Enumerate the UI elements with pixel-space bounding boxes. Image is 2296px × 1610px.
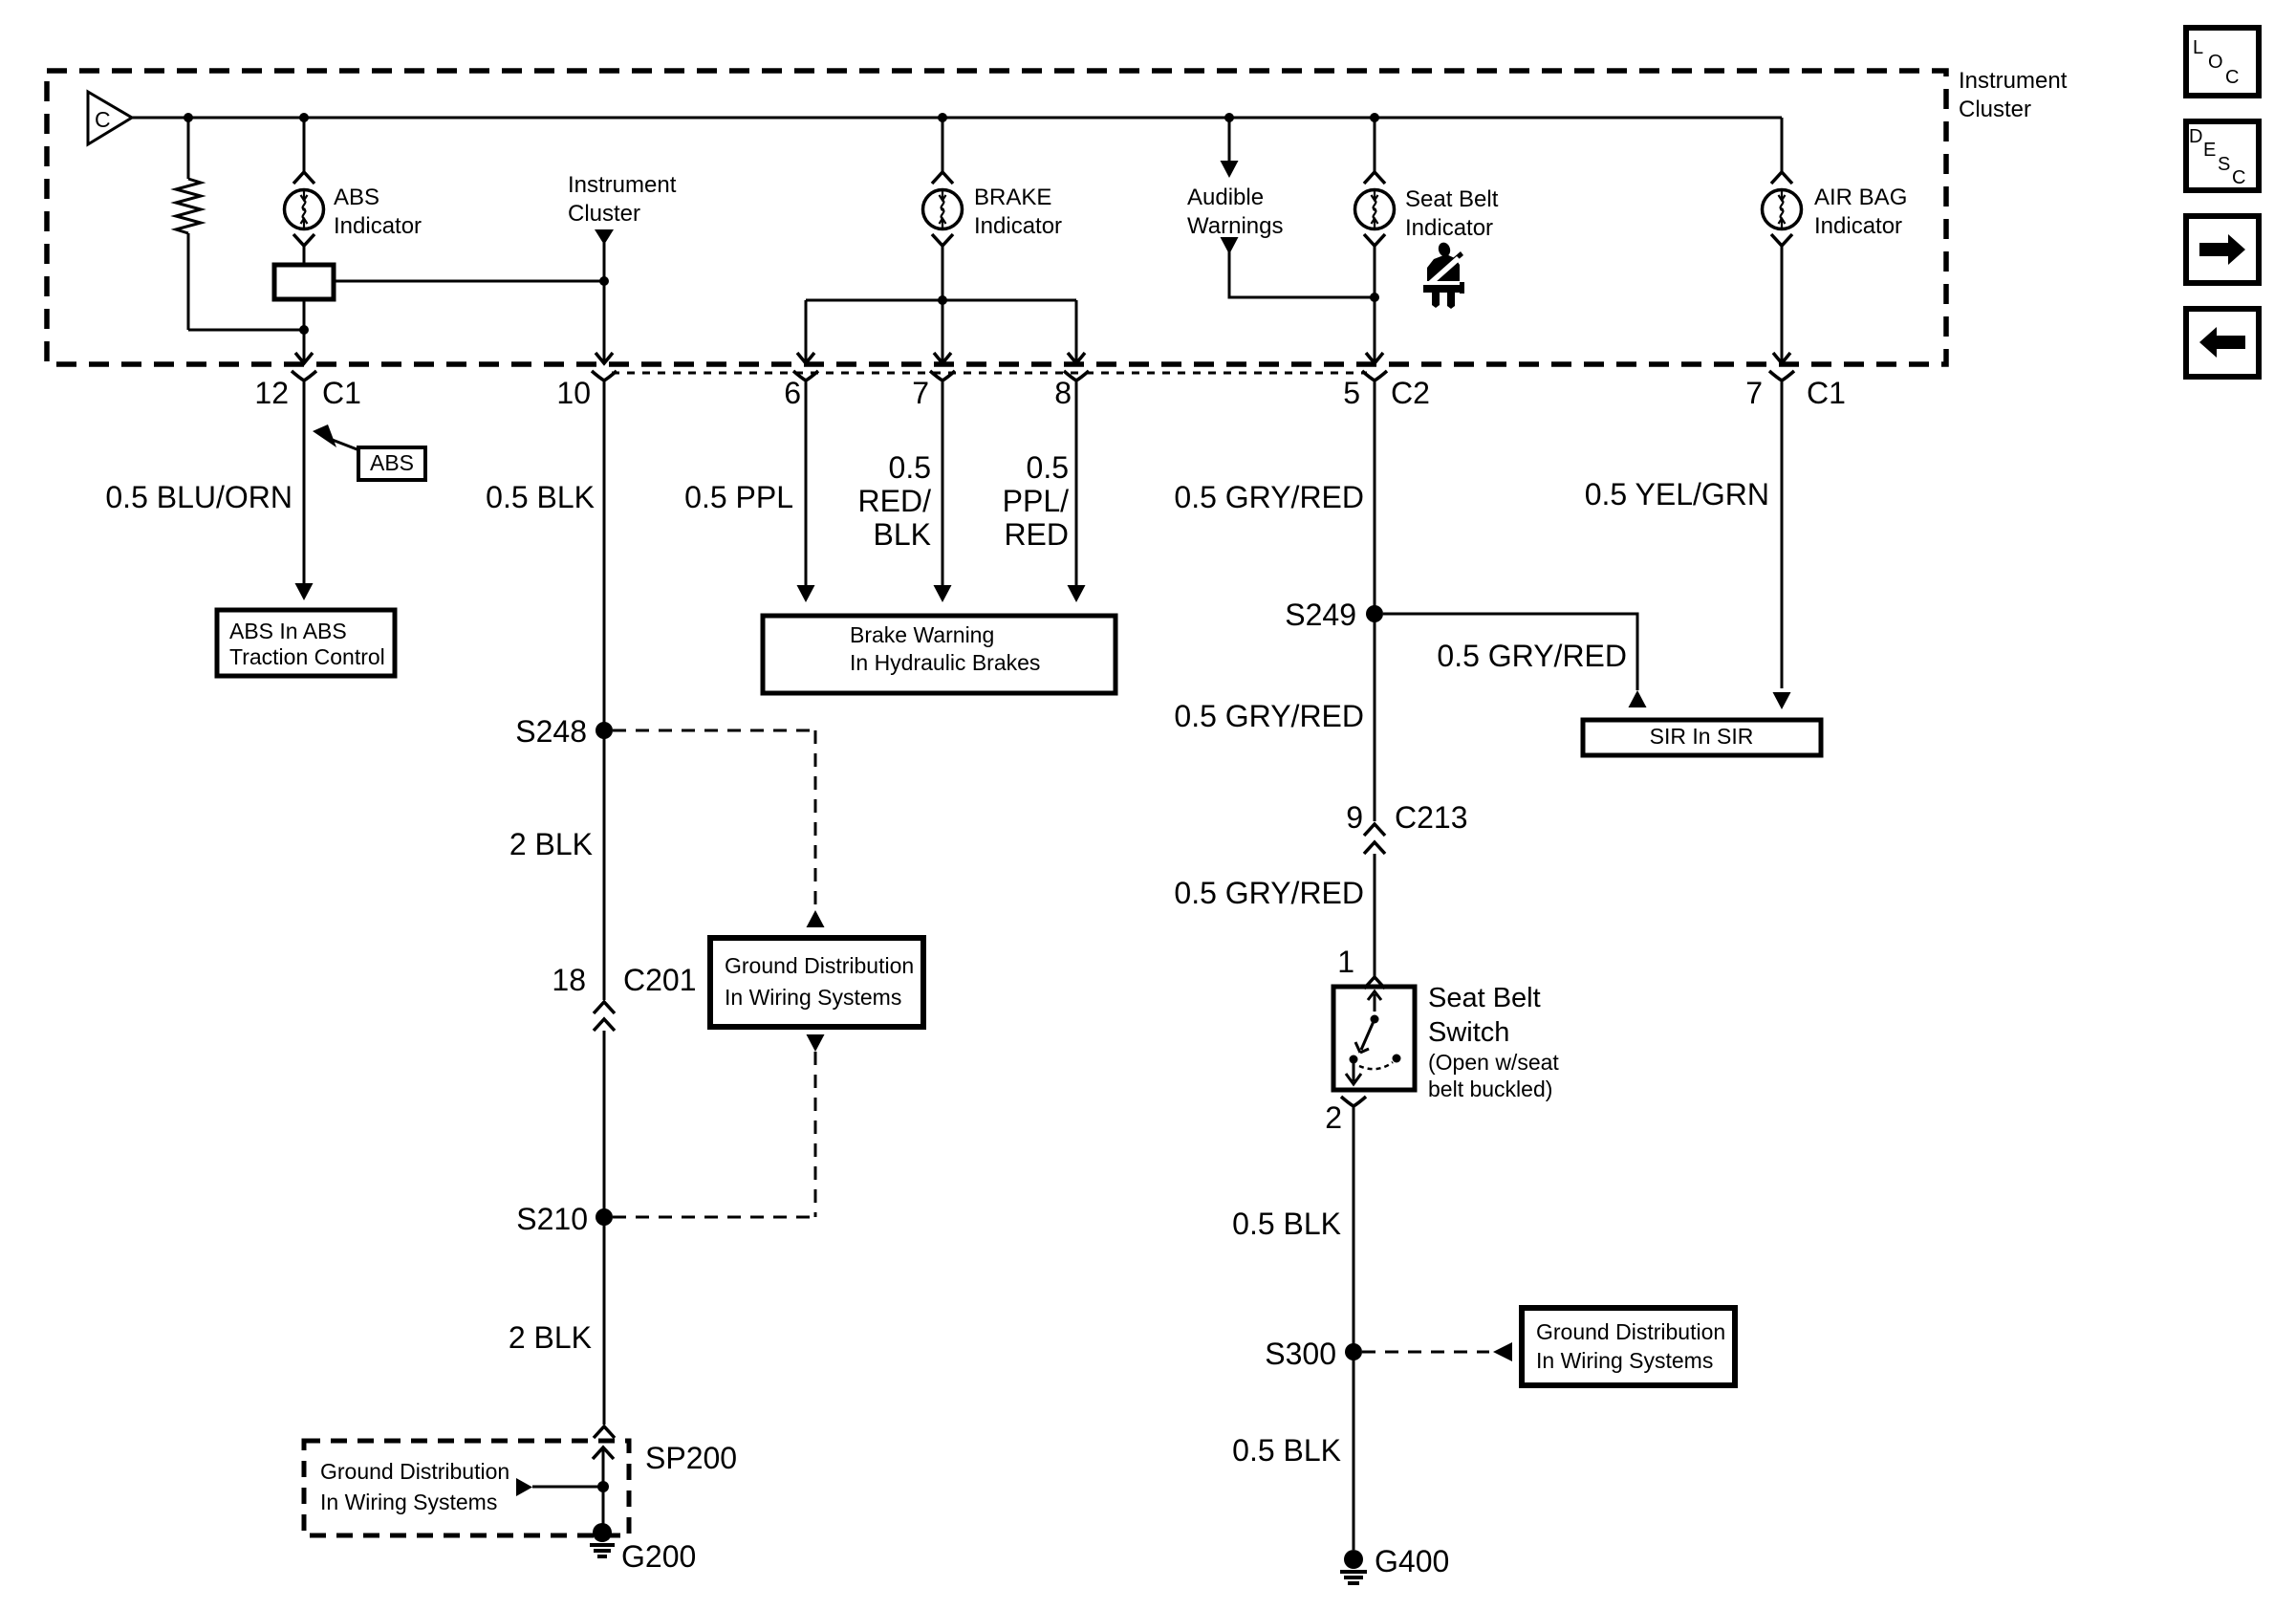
svg-text:C: C bbox=[2232, 167, 2245, 188]
svg-text:Instrument: Instrument bbox=[568, 172, 677, 198]
svg-text:Traction Control: Traction Control bbox=[229, 644, 385, 669]
wire: branch 7 down bbox=[934, 300, 951, 363]
wire: branch 6 down bbox=[797, 300, 814, 363]
svg-text:PPL/: PPL/ bbox=[1003, 484, 1069, 518]
connector pin 5 C2 bbox=[1343, 371, 1430, 410]
wire: resistor bottom to ABS column bbox=[188, 329, 304, 332]
svg-text:0.5 GRY/RED: 0.5 GRY/RED bbox=[1174, 699, 1364, 733]
svg-text:Seat Belt: Seat Belt bbox=[1428, 983, 1541, 1013]
wire: bus corner down to air bag indicator bbox=[1781, 118, 1784, 171]
wire: seat belt indicator down to connector 5 bbox=[1366, 246, 1383, 363]
legend box DESC bbox=[2186, 121, 2259, 190]
instrument cluster title (top right) bbox=[1959, 68, 2068, 122]
node: bus junction at resistor bbox=[184, 113, 193, 122]
dashed box ground distribution (bottom left) bbox=[304, 1441, 629, 1535]
connector pin 10 bbox=[556, 371, 617, 410]
seat belt icon bbox=[1423, 241, 1464, 309]
svg-text:ABS In ABS: ABS In ABS bbox=[229, 619, 347, 643]
svg-text:10: 10 bbox=[556, 376, 591, 410]
legend box LOC bbox=[2186, 28, 2259, 96]
svg-text:6: 6 bbox=[784, 376, 801, 410]
svg-text:0.5 GRY/RED: 0.5 GRY/RED bbox=[1174, 876, 1364, 910]
svg-text:E: E bbox=[2203, 140, 2216, 161]
connector 18 C201 bbox=[552, 730, 696, 1031]
splice pack SP200 label bbox=[645, 1441, 737, 1475]
instrument cluster dashed box bbox=[47, 71, 1946, 364]
svg-text:18: 18 bbox=[552, 963, 586, 997]
wire 0.5 YEL/GRN to SIR bbox=[1585, 381, 1791, 709]
svg-text:Seat Belt: Seat Belt bbox=[1405, 186, 1499, 212]
connector pin 6 bbox=[784, 371, 818, 410]
svg-text:Indicator: Indicator bbox=[334, 213, 422, 239]
svg-text:C2: C2 bbox=[1391, 376, 1430, 410]
wire 0.5 BLU/ORN to ABS module bbox=[105, 381, 313, 600]
legend box left arrow bbox=[2186, 309, 2259, 377]
svg-text:O: O bbox=[2208, 52, 2223, 73]
wire: brake indicator to branch tee bbox=[806, 246, 1076, 305]
svg-text:belt buckled): belt buckled) bbox=[1428, 1077, 1552, 1101]
box SIR In SIR bbox=[1583, 720, 1821, 755]
lamp BRAKE Indicator bbox=[923, 118, 1063, 246]
svg-text:(Open w/seat: (Open w/seat bbox=[1428, 1050, 1559, 1075]
svg-text:Audible: Audible bbox=[1187, 185, 1264, 210]
wire: ABS column down to connector, node at resistor join bbox=[295, 299, 313, 363]
svg-text:0.5: 0.5 bbox=[889, 450, 931, 485]
splice S248 bbox=[515, 714, 613, 749]
svg-text:S: S bbox=[2218, 154, 2230, 175]
svg-text:0.5 GRY/RED: 0.5 GRY/RED bbox=[1437, 639, 1627, 673]
reference arrow into SP200 wire bbox=[516, 1478, 609, 1496]
svg-text:L: L bbox=[2193, 37, 2203, 58]
connector pin 1 bbox=[1337, 945, 1385, 989]
svg-text:Indicator: Indicator bbox=[1814, 213, 1902, 239]
svg-text:In Hydraulic Brakes: In Hydraulic Brakes bbox=[850, 650, 1040, 675]
connector pin 2 bbox=[1325, 1097, 1366, 1135]
svg-text:9: 9 bbox=[1346, 800, 1363, 835]
off-page connector C triangle bbox=[88, 92, 132, 144]
svg-text:0.5 GRY/RED: 0.5 GRY/RED bbox=[1174, 480, 1364, 514]
node: bus junction at audible warnings bbox=[1224, 113, 1234, 122]
svg-text:S210: S210 bbox=[516, 1202, 588, 1236]
svg-text:2 BLK: 2 BLK bbox=[509, 1320, 592, 1355]
lamp AIR BAG Indicator bbox=[1763, 172, 1908, 246]
svg-text:12: 12 bbox=[254, 376, 289, 410]
svg-text:Ground Distribution: Ground Distribution bbox=[1536, 1319, 1725, 1344]
seat belt switch box bbox=[1333, 987, 1415, 1090]
ground G200 bbox=[590, 1523, 696, 1574]
wire 0.5 GRY/RED to seat belt switch bbox=[1174, 854, 1375, 977]
wire: driver box to instrument cluster feed bbox=[334, 280, 604, 283]
wire 2 BLK lower to S210 bbox=[509, 1031, 604, 1355]
dashed reference: S300 to ground distribution bbox=[1362, 1342, 1512, 1361]
wire 0.5 PPL/RED bbox=[1003, 381, 1086, 602]
svg-text:Ground Distribution: Ground Distribution bbox=[320, 1459, 509, 1484]
svg-text:C201: C201 bbox=[623, 963, 697, 997]
svg-text:1: 1 bbox=[1337, 945, 1354, 979]
connector pin 7 C1 (air bag) bbox=[1745, 371, 1846, 410]
dashed reference: S248 to ground distribution bbox=[613, 730, 825, 927]
svg-text:SIR In SIR: SIR In SIR bbox=[1650, 724, 1754, 749]
ABS circuit callout box bbox=[313, 424, 425, 480]
svg-text:Indicator: Indicator bbox=[974, 213, 1062, 239]
box ABS In ABS Traction Control bbox=[217, 610, 395, 676]
node: bus junction at ABS indicator bbox=[299, 113, 309, 122]
svg-text:0.5 BLK: 0.5 BLK bbox=[486, 480, 595, 514]
wire: S249 branch to SIR bbox=[1383, 614, 1647, 707]
seat belt switch label bbox=[1428, 983, 1559, 1101]
svg-text:ABS: ABS bbox=[370, 450, 414, 475]
svg-text:0.5 PPL: 0.5 PPL bbox=[684, 480, 793, 514]
connector row thin dashed line (C2) bbox=[612, 372, 1367, 375]
svg-text:G400: G400 bbox=[1375, 1544, 1449, 1578]
svg-text:2 BLK: 2 BLK bbox=[509, 827, 593, 861]
svg-text:C1: C1 bbox=[1807, 376, 1846, 410]
svg-text:Warnings: Warnings bbox=[1187, 213, 1283, 239]
svg-text:0.5: 0.5 bbox=[1027, 450, 1069, 485]
svg-text:Indicator: Indicator bbox=[1405, 215, 1493, 241]
svg-text:Cluster: Cluster bbox=[568, 201, 640, 227]
wire 2 BLK upper bbox=[509, 827, 593, 861]
node: audible joins seat belt column bbox=[1370, 293, 1379, 302]
svg-text:8: 8 bbox=[1054, 376, 1072, 410]
svg-text:Switch: Switch bbox=[1428, 1017, 1509, 1048]
wire 0.5 BLK to G400 bbox=[1232, 1352, 1354, 1550]
svg-text:0.5 BLK: 0.5 BLK bbox=[1232, 1207, 1341, 1241]
svg-text:2: 2 bbox=[1325, 1100, 1342, 1135]
wire 0.5 GRY/RED to C213 bbox=[1174, 614, 1375, 821]
svg-text:0.5 BLU/ORN: 0.5 BLU/ORN bbox=[105, 480, 292, 514]
svg-text:AIR BAG: AIR BAG bbox=[1814, 185, 1907, 210]
svg-text:C1: C1 bbox=[322, 376, 361, 410]
wire: branch 8 down bbox=[1068, 300, 1085, 363]
wire 0.5 RED/BLK bbox=[858, 381, 952, 602]
svg-text:BLK: BLK bbox=[874, 517, 931, 552]
svg-text:D: D bbox=[2189, 126, 2202, 147]
lamp ABS Indicator bbox=[285, 118, 422, 246]
svg-text:In Wiring Systems: In Wiring Systems bbox=[320, 1490, 497, 1514]
svg-text:5: 5 bbox=[1343, 376, 1360, 410]
connector pin 8 bbox=[1054, 371, 1089, 410]
svg-text:Instrument: Instrument bbox=[1959, 68, 2068, 94]
svg-text:C: C bbox=[95, 107, 111, 132]
ABS indicator driver box (cluster internal) bbox=[274, 246, 334, 299]
svg-text:RED: RED bbox=[1004, 517, 1069, 552]
svg-text:C213: C213 bbox=[1395, 800, 1468, 835]
svg-text:G200: G200 bbox=[621, 1539, 696, 1574]
wire 0.5 GRY/RED to S249 bbox=[1174, 381, 1375, 614]
wire: air bag indicator down to connector 7 bbox=[1773, 246, 1790, 363]
resistor (cluster internal) bbox=[176, 118, 201, 330]
svg-text:ABS: ABS bbox=[334, 185, 379, 210]
splice S249 bbox=[1285, 598, 1383, 632]
legend box right arrow bbox=[2186, 216, 2259, 283]
dashed reference: ground distribution to S210 bbox=[613, 1034, 825, 1217]
svg-text:In Wiring Systems: In Wiring Systems bbox=[1536, 1348, 1713, 1373]
svg-text:Brake Warning: Brake Warning bbox=[850, 622, 994, 647]
svg-text:0.5 BLK: 0.5 BLK bbox=[1232, 1433, 1341, 1468]
splice S210 bbox=[516, 1202, 613, 1236]
wire: SP200 to G200 bbox=[602, 1447, 605, 1528]
box Ground Distribution In Wiring Systems (right) bbox=[1522, 1308, 1735, 1385]
svg-text:BRAKE: BRAKE bbox=[974, 185, 1051, 210]
connector 9 C213 bbox=[1346, 800, 1467, 854]
svg-text:S248: S248 bbox=[515, 714, 587, 749]
connector pin 12 C1 bbox=[254, 371, 361, 410]
node: bus junction at BRAKE indicator bbox=[938, 113, 947, 122]
wire 0.5 BLK to S300 bbox=[1232, 1106, 1354, 1352]
lamp Seat Belt Indicator bbox=[1355, 118, 1499, 246]
svg-text:Cluster: Cluster bbox=[1959, 97, 2031, 122]
connector pin 7 bbox=[912, 371, 955, 410]
seat belt switch contacts bbox=[1346, 991, 1401, 1084]
box Brake Warning In Hydraulic Brakes bbox=[763, 616, 1116, 693]
svg-text:SP200: SP200 bbox=[645, 1441, 737, 1475]
wire: main bus from C to air bag column bbox=[132, 117, 1782, 120]
wire: S210 down to SP200 bbox=[593, 1217, 615, 1459]
svg-text:RED/: RED/ bbox=[858, 484, 932, 518]
svg-text:S249: S249 bbox=[1285, 598, 1356, 632]
svg-text:S300: S300 bbox=[1265, 1337, 1336, 1371]
node: bus junction at seat belt indicator bbox=[1370, 113, 1379, 122]
svg-text:7: 7 bbox=[912, 376, 929, 410]
instrument cluster feed label and arrow bbox=[568, 172, 677, 363]
svg-text:In Wiring Systems: In Wiring Systems bbox=[725, 985, 901, 1010]
svg-text:C: C bbox=[2225, 67, 2239, 88]
svg-text:Ground Distribution: Ground Distribution bbox=[725, 953, 914, 978]
wire 0.5 BLK instrument cluster ground bbox=[486, 381, 604, 730]
svg-text:0.5 YEL/GRN: 0.5 YEL/GRN bbox=[1585, 477, 1769, 511]
splice S300 bbox=[1265, 1337, 1362, 1371]
box Ground Distribution In Wiring Systems (middle) bbox=[710, 938, 923, 1027]
wire 0.5 PPL bbox=[684, 381, 814, 602]
svg-text:7: 7 bbox=[1745, 376, 1763, 410]
ground G400 bbox=[1340, 1544, 1449, 1583]
audible warnings reference bbox=[1187, 118, 1375, 297]
